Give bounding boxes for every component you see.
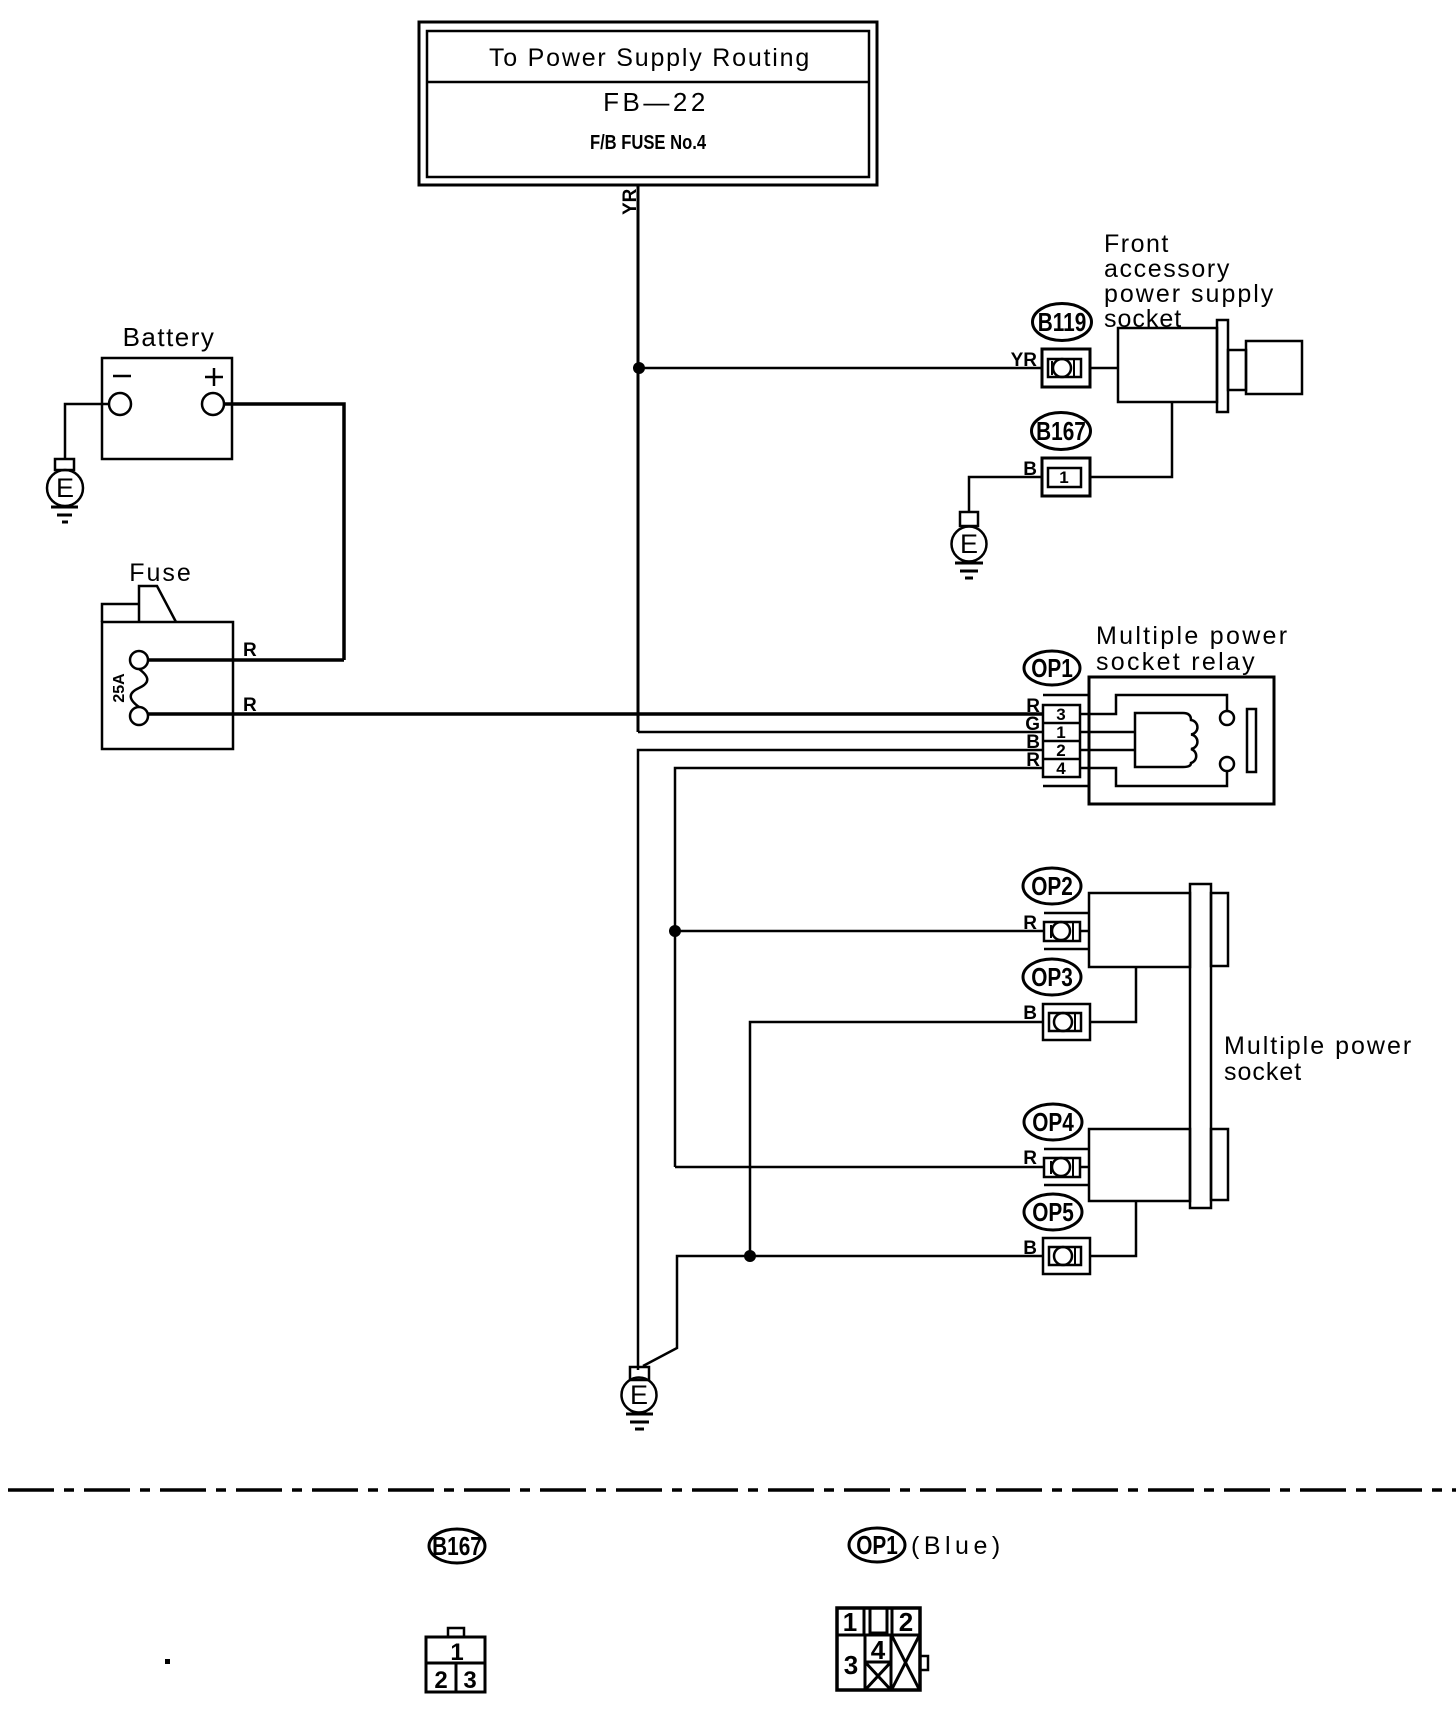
svg-text:OP1: OP1: [856, 1531, 898, 1560]
ground E main: [622, 1367, 657, 1429]
node junction to B119: [633, 362, 645, 374]
connector B167: [1042, 458, 1090, 496]
wire R pin 4 to socket bus: [675, 768, 1043, 1167]
scan speck: [165, 1659, 170, 1664]
svg-text:E: E: [960, 529, 978, 559]
wire socket bottom to OP5: [1090, 1201, 1136, 1256]
svg-text:R: R: [243, 640, 257, 661]
svg-text:R: R: [1023, 1148, 1037, 1169]
connector label B119: [1033, 304, 1092, 341]
svg-text:YR: YR: [1011, 350, 1038, 371]
connector OP3: [1043, 1004, 1090, 1040]
wire R fuse to relay pin 3: [148, 712, 1043, 716]
svg-text:3: 3: [463, 1667, 476, 1694]
connector OP5: [1043, 1238, 1090, 1274]
connector OP4: [1044, 1149, 1089, 1185]
svg-text:Front: Front: [1104, 230, 1170, 258]
svg-text:B167: B167: [432, 1532, 482, 1561]
svg-text:OP3: OP3: [1031, 963, 1073, 992]
wire B167 to ground: [969, 477, 1042, 512]
relay coil wires pins 1 and 2: [1080, 731, 1135, 734]
svg-text:(Blue): (Blue): [911, 1532, 1005, 1560]
socket bottom knob: [1211, 1129, 1228, 1200]
separator dash-dot line: [8, 1488, 1456, 1492]
svg-text:F/B FUSE No.4: F/B FUSE No.4: [590, 131, 707, 154]
wire R to OP2: [675, 930, 1044, 933]
svg-text:2: 2: [1056, 741, 1065, 760]
relay contact top: [1220, 711, 1234, 725]
svg-text:OP1: OP1: [1031, 654, 1073, 683]
connector OP1 pinout: [837, 1608, 928, 1690]
wire fuse to battery positive: [148, 658, 344, 662]
wire G from YR bus to pin 1: [638, 731, 1043, 734]
svg-text:2: 2: [434, 1667, 447, 1694]
wire battery negative: [65, 404, 109, 459]
ground E B167: [952, 512, 987, 578]
wire B OP3: [750, 1022, 1043, 1256]
wire B pin 2 to ground bus: [638, 750, 1043, 1370]
svg-text:1: 1: [843, 1607, 857, 1637]
node junction OP3 joins OP5: [744, 1250, 756, 1262]
svg-text:OP5: OP5: [1032, 1198, 1074, 1227]
connector label OP1: [1024, 651, 1080, 685]
svg-text:power supply: power supply: [1104, 280, 1275, 308]
connector B167 pinout: [426, 1628, 485, 1692]
connector label OP4: [1024, 1104, 1082, 1140]
wire battery positive: [224, 404, 344, 660]
svg-text:E: E: [630, 1380, 648, 1410]
relay internal pin4 contact path: [1080, 768, 1227, 786]
svg-text:FB—22: FB—22: [603, 87, 709, 117]
wire labels R G B R: [1025, 696, 1040, 771]
connector label OP3: [1023, 959, 1081, 995]
connector label OP2: [1023, 868, 1081, 904]
relay coil: [1135, 713, 1197, 767]
connector label B167 pinout: [429, 1529, 485, 1563]
svg-text:socket relay: socket relay: [1096, 648, 1257, 676]
multiple power socket relay box: [1089, 677, 1274, 804]
connector OP2: [1044, 913, 1089, 949]
connector label B167: [1032, 413, 1091, 450]
socket panel bar: [1190, 884, 1211, 1208]
connector label OP5: [1024, 1194, 1082, 1230]
svg-text:accessory: accessory: [1104, 255, 1231, 283]
wire B OP5 to ground: [643, 1256, 1043, 1366]
svg-text:R: R: [1023, 913, 1037, 934]
power supply routing box: [419, 22, 877, 185]
svg-text:1: 1: [1056, 723, 1065, 742]
relay pin numbers: [1056, 705, 1066, 778]
svg-text:2: 2: [899, 1607, 913, 1637]
svg-text:3: 3: [1056, 705, 1065, 724]
wire socket to B167: [1090, 402, 1172, 477]
relay connector block: [1043, 695, 1089, 786]
wire R to OP4: [675, 1166, 1044, 1169]
label Front accessory power supply socket: [1104, 230, 1275, 333]
fuse: [102, 586, 233, 749]
relay contact bottom: [1220, 757, 1234, 771]
connector B119: [1042, 349, 1090, 387]
svg-text:Fuse: Fuse: [129, 559, 193, 587]
svg-text:B119: B119: [1038, 308, 1087, 337]
socket top knob: [1211, 893, 1228, 966]
svg-text:Multiple power: Multiple power: [1096, 622, 1289, 650]
svg-text:4: 4: [1056, 759, 1066, 778]
svg-text:25A: 25A: [111, 673, 128, 703]
relay armature bar: [1247, 709, 1256, 772]
label Multiple power socket: [1224, 1032, 1413, 1086]
svg-text:4: 4: [871, 1635, 886, 1665]
svg-text:1: 1: [450, 1639, 463, 1666]
multiple power socket body top: [1089, 893, 1190, 967]
svg-text:OP2: OP2: [1031, 872, 1073, 901]
multiple power socket body bottom: [1089, 1129, 1190, 1201]
svg-text:To Power Supply Routing: To Power Supply Routing: [489, 44, 811, 72]
svg-text:E: E: [56, 473, 74, 503]
wire B119 to socket: [1090, 367, 1118, 370]
svg-text:3: 3: [844, 1650, 858, 1680]
svg-text:socket: socket: [1224, 1058, 1302, 1086]
wire socket top to OP3: [1090, 967, 1136, 1022]
svg-text:OP4: OP4: [1032, 1108, 1074, 1137]
battery: [102, 358, 232, 459]
wire YR to B119: [639, 367, 1042, 370]
svg-text:Multiple power: Multiple power: [1224, 1032, 1413, 1060]
svg-text:1: 1: [1059, 468, 1068, 487]
wire YR bus: [637, 185, 640, 732]
label Multiple power socket relay: [1096, 622, 1289, 676]
connector label OP1 pinout: [849, 1528, 905, 1562]
ground E battery: [47, 459, 83, 522]
svg-text:Battery: Battery: [123, 322, 216, 352]
front accessory power supply socket: [1118, 320, 1302, 412]
svg-text:YR: YR: [620, 188, 641, 215]
relay internal pin3 contact path: [1080, 695, 1227, 714]
svg-text:B167: B167: [1036, 417, 1086, 446]
svg-text:R: R: [243, 695, 257, 716]
node junction OP2 branch: [669, 925, 681, 937]
